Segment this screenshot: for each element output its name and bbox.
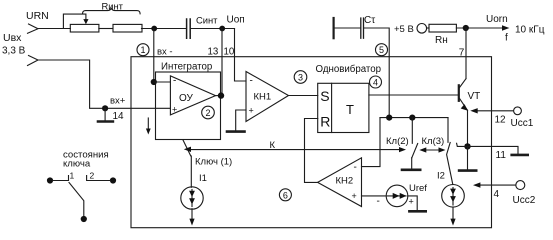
node Uоп junction dot xyxy=(219,26,225,32)
svg-text:Кл(3): Кл(3) xyxy=(422,136,445,147)
svg-text:-: - xyxy=(250,76,253,87)
wire вх+ input to pin 14 xyxy=(38,60,170,108)
node line horizontal (under one-shot output) xyxy=(380,117,448,119)
wire I1 to bottom with arrow xyxy=(191,209,193,219)
node dot (Кл2 line) xyxy=(409,115,415,121)
svg-text:4: 4 xyxy=(373,78,378,88)
svg-text:-: - xyxy=(354,162,357,173)
control double arrow between Кл(2) and Кл(3) xyxy=(423,149,442,151)
terminal circle Ucc1 xyxy=(514,107,522,115)
node 5 circled xyxy=(376,44,388,56)
pin number 7 xyxy=(459,47,465,58)
label К xyxy=(270,140,276,151)
capacitor Cτ terminal bar xyxy=(333,18,335,38)
svg-text:Кл(2): Кл(2) xyxy=(386,136,409,147)
svg-text:+: + xyxy=(409,197,414,207)
wire вх- vertical (pin 1) xyxy=(153,29,155,83)
label Кл(3) xyxy=(422,136,445,147)
svg-text:+: + xyxy=(352,191,357,201)
svg-text:Интегратор: Интегратор xyxy=(161,62,212,73)
svg-text:К: К xyxy=(270,140,276,151)
node junction dot вх+ xyxy=(102,105,108,111)
label plus of Uref xyxy=(409,197,414,207)
node 1 circled xyxy=(137,44,149,56)
pin number 10 xyxy=(224,46,235,57)
comparator КН2 (points left) xyxy=(318,158,362,207)
svg-text:+: + xyxy=(172,105,177,115)
svg-text:R: R xyxy=(320,114,330,130)
label Uвх xyxy=(3,32,22,44)
svg-text:10 кГц: 10 кГц xyxy=(515,24,545,35)
wire КН1 output to S input xyxy=(289,95,318,97)
pin number 4 xyxy=(494,189,500,200)
ground КН1 xyxy=(227,130,245,133)
pin number 12 xyxy=(495,114,507,125)
label вх+ xyxy=(110,96,126,107)
svg-text:Синт: Синт xyxy=(196,15,218,26)
svg-text:S: S xyxy=(320,88,329,104)
label I2 xyxy=(437,171,445,182)
node 3 circled xyxy=(294,71,307,84)
svg-text:+: + xyxy=(249,106,254,116)
svg-text:2: 2 xyxy=(205,108,210,118)
svg-text:КН2: КН2 xyxy=(336,176,354,187)
terminal circle +5 В xyxy=(417,24,427,34)
wire pin 7 to VT collector xyxy=(465,28,467,79)
wire cap to corner xyxy=(191,28,235,30)
transistor VT xyxy=(458,85,460,101)
wire one-shot output to VT base xyxy=(369,94,458,96)
node dot (Cτ line) xyxy=(386,115,392,121)
pin number 11 xyxy=(496,150,507,161)
svg-text:12: 12 xyxy=(495,114,507,125)
svg-text:Uвх: Uвх xyxy=(3,32,22,44)
label вх - xyxy=(157,46,173,57)
label URN xyxy=(26,10,49,22)
svg-text:Uоп: Uоп xyxy=(227,15,245,26)
ground at вх+ xyxy=(104,108,106,120)
svg-text:Ключ (1): Ключ (1) xyxy=(195,157,232,168)
stub wire left of node xyxy=(457,143,468,146)
svg-text:2: 2 xyxy=(90,171,95,181)
capacitor Cτ plates xyxy=(361,18,364,38)
wire I2 to bottom with arrow xyxy=(452,207,454,219)
svg-text:-: - xyxy=(377,196,380,207)
wire Uоп to КН1 minus input (pin 10) xyxy=(235,29,247,82)
wire node line to КН2 minus input xyxy=(362,118,381,167)
svg-text:VT: VT xyxy=(468,91,481,102)
wire minus input xyxy=(154,81,171,83)
legend switch contact 2 xyxy=(110,177,116,183)
svg-text:7: 7 xyxy=(459,47,465,58)
svg-text:1: 1 xyxy=(70,171,75,181)
svg-text:-: - xyxy=(173,76,176,87)
svg-text:I2: I2 xyxy=(437,171,445,182)
svg-text:10: 10 xyxy=(224,46,235,57)
ground Uref xyxy=(409,210,425,213)
svg-text:5: 5 xyxy=(379,45,384,55)
svg-text:1: 1 xyxy=(140,45,145,55)
label Uоп xyxy=(227,15,245,26)
terminal circle Ucc2 xyxy=(516,181,525,190)
svg-text:T: T xyxy=(346,102,354,117)
label I1 xyxy=(199,173,207,184)
legend text состояния ключа xyxy=(63,150,109,161)
svg-text:КН1: КН1 xyxy=(254,92,272,103)
label 10 кГц xyxy=(515,24,545,35)
wire Cτ xyxy=(335,27,360,29)
wire resistor to cap node xyxy=(142,28,187,30)
legend switch contact 1 xyxy=(47,177,53,183)
svg-text:ключа: ключа xyxy=(63,159,91,170)
svg-text:3,3 В: 3,3 В xyxy=(2,46,26,57)
current source I1 xyxy=(181,187,203,209)
ground Кл(2) xyxy=(402,169,420,172)
wire Cτ to node line (pin 5) xyxy=(364,28,389,118)
wire op-amp apex to feedback node xyxy=(216,95,223,97)
switch Ключ (1) arm xyxy=(183,140,191,156)
node 2 circled xyxy=(202,106,215,119)
wire feedback cap to op-amp output (pin 13) xyxy=(221,29,223,96)
wire switch to I1 xyxy=(190,156,192,187)
one-shot box Одновибратор xyxy=(318,83,369,132)
label Uref xyxy=(409,183,427,194)
label minus of Uref xyxy=(377,196,380,207)
svg-text:14: 14 xyxy=(113,111,125,122)
label Синт xyxy=(196,15,218,26)
wire input to potentiometer xyxy=(38,28,70,30)
label 3,3 В xyxy=(2,46,26,57)
svg-text:Одновибратор: Одновибратор xyxy=(316,64,382,75)
svg-text:6: 6 xyxy=(283,190,288,200)
node 4 circled xyxy=(370,76,382,88)
label Кл(2) xyxy=(386,136,409,147)
svg-text:+5 В: +5 В xyxy=(394,24,414,35)
svg-text:11: 11 xyxy=(496,150,507,161)
IC outer box xyxy=(131,57,492,228)
switch Кл(2) xyxy=(411,118,413,144)
label Ucc2 xyxy=(513,195,536,206)
label Одновибратор xyxy=(316,64,382,75)
svg-text:Uorn: Uorn xyxy=(486,14,508,25)
node junction dot (top of вх- line) xyxy=(151,26,157,32)
resistor Rн xyxy=(429,24,456,32)
integrator inner box xyxy=(156,72,221,140)
potentiometer R (wiper feedback) xyxy=(63,14,86,28)
label Uогп xyxy=(486,14,508,25)
input terminal вх+ chevron xyxy=(28,56,39,66)
switch Кл(3) xyxy=(447,118,449,143)
node junction dot at op-amp minus input xyxy=(151,79,157,85)
label Cτ xyxy=(364,15,375,26)
input terminal Uвх chevron xyxy=(28,24,39,33)
wire pin 11 to external ground xyxy=(468,146,519,153)
wire Rн to output arrow xyxy=(456,27,503,29)
svg-text:f: f xyxy=(505,33,508,44)
brace Rинт xyxy=(83,8,141,13)
svg-text:Uref: Uref xyxy=(409,183,427,194)
ground pin 11 xyxy=(512,154,528,157)
output arrow Uогп xyxy=(502,25,510,31)
wire Ucc2 with arrow xyxy=(477,184,516,186)
wire КН1 plus input to ground xyxy=(236,110,246,130)
resistor Rинт second section xyxy=(113,24,142,32)
svg-text:I1: I1 xyxy=(199,173,207,184)
svg-text:Ucc1: Ucc1 xyxy=(511,118,534,129)
wire to Rн xyxy=(427,27,429,29)
svg-text:Rн: Rн xyxy=(435,35,448,46)
wire R input from КН2 output xyxy=(305,119,318,183)
wire КН2 plus input to Uref xyxy=(362,195,387,197)
ground below node xyxy=(467,146,469,169)
label Rинт xyxy=(102,0,124,11)
svg-text:URN: URN xyxy=(26,10,49,22)
node 2 output dot xyxy=(218,92,224,98)
label +5 В xyxy=(394,24,414,35)
op-amp ОУ triangle xyxy=(170,76,215,115)
label Ключ (1) xyxy=(195,157,232,168)
capacitor Синт xyxy=(187,19,191,38)
control line К with arrows xyxy=(190,149,402,151)
current source I2 xyxy=(442,185,465,208)
svg-text:Ucc2: Ucc2 xyxy=(513,195,536,206)
svg-text:вх -: вх - xyxy=(157,46,173,57)
pin number 13 xyxy=(208,46,219,57)
wire Ucc1 with arrow xyxy=(474,110,514,112)
label Интегратор xyxy=(161,62,212,73)
comparator КН1 xyxy=(246,72,289,122)
wire emitter down xyxy=(467,110,469,146)
svg-text:вх+: вх+ xyxy=(110,96,126,107)
svg-text:13: 13 xyxy=(208,46,219,57)
label f xyxy=(505,33,508,44)
label Ucc1 xyxy=(511,118,534,129)
wire Uref to ground xyxy=(408,196,417,210)
pin number 14 xyxy=(113,111,125,122)
svg-text:Cτ: Cτ xyxy=(364,15,375,26)
node 6 circled xyxy=(279,189,291,201)
current direction arrow (down) left of integrator xyxy=(147,118,149,130)
voltage source Uref xyxy=(386,185,408,207)
svg-text:4: 4 xyxy=(494,189,500,200)
svg-text:ОУ: ОУ xyxy=(179,93,194,104)
svg-text:3: 3 xyxy=(298,73,303,83)
node dot emitter/pin 11 xyxy=(464,143,470,149)
wire between resistors xyxy=(99,28,112,30)
node junction dot pin 7 xyxy=(463,25,469,31)
svg-text:Rинт: Rинт xyxy=(102,0,124,11)
legend switch arm xyxy=(69,183,84,217)
